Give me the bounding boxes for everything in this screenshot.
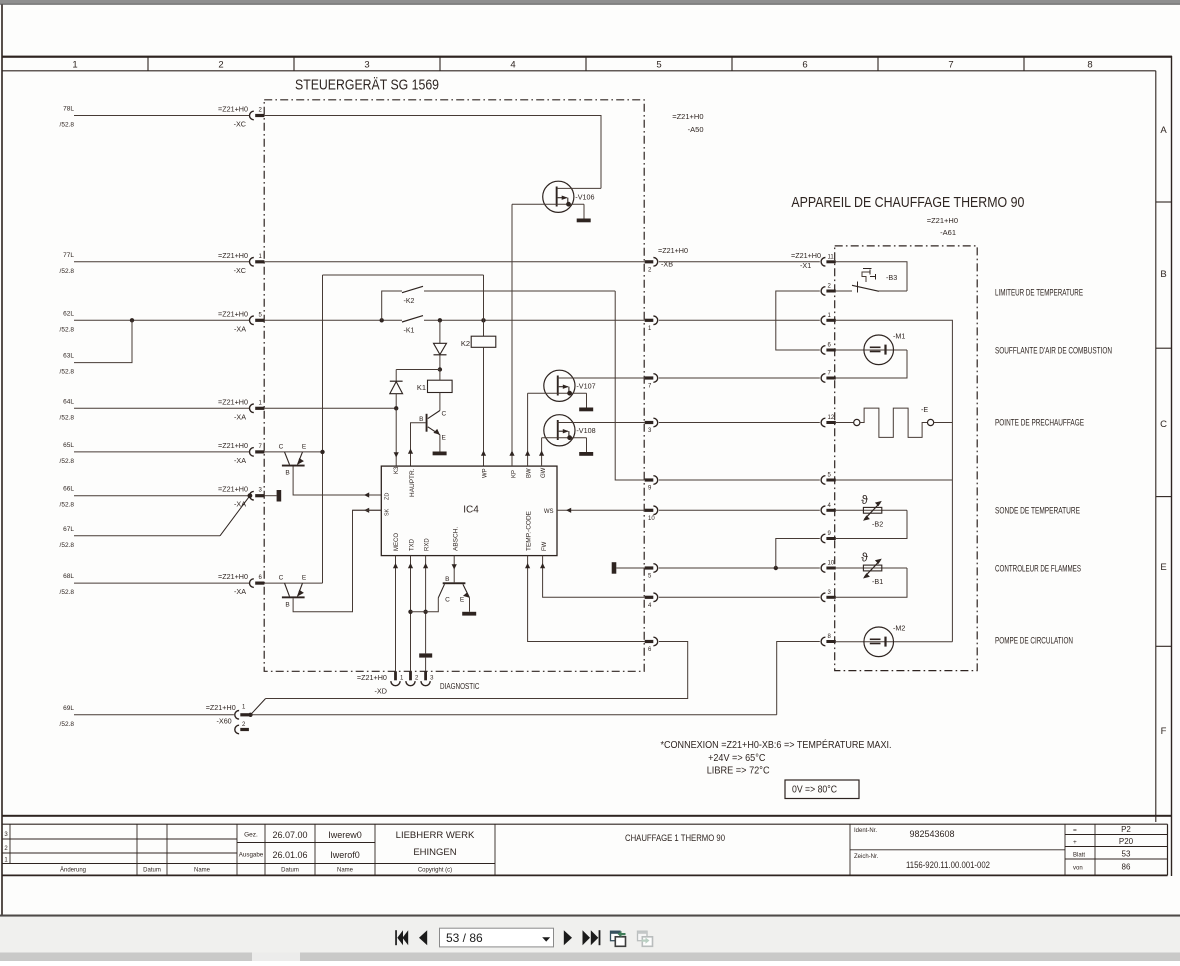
wire B1 down to X1:3 row — [836, 568, 907, 597]
svg-text:10: 10 — [648, 516, 655, 522]
svg-text:K1: K1 — [417, 383, 426, 392]
svg-text:2: 2 — [218, 60, 223, 71]
svg-text:B: B — [419, 416, 423, 423]
junction 62L/diode branch — [438, 318, 442, 322]
connector -XB pin 1 — [645, 319, 654, 322]
ground V6 — [462, 612, 476, 616]
wire 62L inside A50 with K1 contact gap — [264, 319, 402, 321]
svg-text:C: C — [279, 575, 284, 582]
svg-text:E: E — [302, 444, 307, 451]
wire V4 base to IC ZD — [293, 467, 381, 496]
svg-text:-A61: -A61 — [940, 228, 956, 237]
IC4 box — [381, 466, 557, 555]
connector -X1 pin 4 — [821, 506, 825, 515]
svg-text:APPAREIL DE CHAUFFAGE THERMO 9: APPAREIL DE CHAUFFAGE THERMO 90 — [791, 194, 1024, 211]
svg-text:66L: 66L — [63, 486, 74, 493]
wire to contact -K2 — [382, 291, 402, 320]
svg-text:B: B — [285, 602, 289, 609]
svg-text:MECO: MECO — [394, 533, 400, 551]
svg-text:C: C — [1160, 419, 1167, 430]
connector -XB pin 3 — [645, 421, 654, 424]
svg-text:4: 4 — [510, 60, 515, 71]
column ticks — [147, 57, 149, 71]
svg-text:3: 3 — [364, 60, 369, 71]
svg-text:Ident-Nr.: Ident-Nr. — [854, 828, 877, 834]
svg-text:Zeich-Nr.: Zeich-Nr. — [854, 854, 879, 860]
wire 78L inside A50 to V106 drain — [264, 116, 601, 189]
svg-text:TXD: TXD — [410, 538, 416, 551]
svg-text:FW: FW — [542, 541, 548, 551]
connector -X1 pin 2 — [821, 287, 825, 296]
bottom scrollbar strip — [0, 953, 1180, 962]
connector -X1 pin 10 — [821, 564, 825, 573]
frame right outer border — [1171, 56, 1173, 876]
svg-text:/52.8: /52.8 — [60, 589, 75, 596]
svg-text:-XB: -XB — [661, 260, 673, 269]
svg-text:SOUFFLANTE D'AIR DE COMBUSTION: SOUFFLANTE D'AIR DE COMBUSTION — [995, 346, 1112, 357]
connector -XA pin 3 — [250, 491, 254, 500]
svg-text:=Z21+H0: =Z21+H0 — [206, 703, 236, 712]
svg-text:SONDE DE TEMPERATURE: SONDE DE TEMPERATURE — [995, 506, 1080, 517]
wire pump feed up to X1:8 — [777, 642, 820, 715]
svg-text:53 / 86: 53 / 86 — [446, 931, 483, 945]
pump M2 — [836, 641, 953, 643]
svg-text:53: 53 — [1122, 850, 1131, 859]
title block outline — [2, 823, 1168, 825]
relay coil K1 — [428, 380, 453, 392]
wire X1:1 to supply rail — [836, 320, 953, 642]
connector -X1 pin 3 — [821, 593, 825, 602]
diode V2 (up) — [395, 370, 397, 382]
wire XB7 to X1:7 — [659, 377, 820, 379]
svg-text:LIMITEUR DE TEMPERATURE: LIMITEUR DE TEMPERATURE — [995, 288, 1083, 299]
svg-text:Datum: Datum — [143, 868, 161, 874]
frame top border — [2, 56, 1172, 58]
svg-text:=Z21+H0: =Z21+H0 — [218, 397, 248, 406]
svg-text:Gez.: Gez. — [244, 832, 258, 839]
junction 62L/63L — [130, 318, 134, 322]
wire V5 base to IC SK — [293, 510, 381, 612]
svg-text:Name: Name — [194, 868, 211, 874]
connector -X60 pin 2 terminated — [235, 725, 239, 734]
wire base to IC HAUPTR — [411, 423, 426, 466]
svg-text:WP: WP — [483, 468, 489, 478]
svg-text:E: E — [302, 575, 307, 582]
svg-text:/52.8: /52.8 — [60, 502, 75, 509]
transistor V3 (K1 driver) — [439, 393, 441, 411]
svg-text:77L: 77L — [63, 252, 74, 259]
wire IC WS to XB10 — [557, 509, 645, 511]
wire 77L to heater — [659, 261, 820, 263]
svg-text:/52.8: /52.8 — [60, 721, 75, 728]
terminator bar RXD — [419, 653, 432, 657]
svg-text:K2: K2 — [461, 339, 470, 348]
viewer top gray bar — [0, 0, 1180, 5]
wire B2 down to X1:9 row — [836, 510, 907, 538]
svg-text:62L: 62L — [63, 310, 74, 317]
svg-text:/52.8: /52.8 — [60, 458, 75, 465]
svg-text:K3: K3 — [394, 466, 400, 474]
svg-text:=Z21+H0: =Z21+H0 — [218, 441, 248, 450]
connector -XB pin 4 — [645, 596, 654, 599]
svg-text:1: 1 — [72, 60, 77, 71]
svg-text:-B2: -B2 — [872, 520, 883, 529]
MOSFET V106 — [543, 181, 574, 212]
svg-text:HAUPTR.: HAUPTR. — [409, 468, 416, 497]
svg-text:E: E — [442, 435, 447, 442]
svg-text:12: 12 — [828, 415, 835, 421]
svg-text:Iwerof0: Iwerof0 — [330, 850, 360, 860]
svg-text:-XA: -XA — [234, 456, 246, 465]
svg-text:=: = — [1073, 827, 1077, 834]
svg-text:TEMP.-CODE: TEMP.-CODE — [526, 510, 533, 551]
svg-text:SK: SK — [385, 508, 391, 516]
svg-text:63L: 63L — [63, 353, 74, 360]
wire XB3 to X1:12 — [659, 422, 820, 424]
connector -XA pin 1 — [250, 404, 254, 413]
wire V106 drain — [557, 187, 601, 189]
svg-text:=Z21+H0: =Z21+H0 — [218, 572, 248, 581]
connector -XB pin 9 wire — [645, 478, 654, 481]
svg-text:=Z21+H0: =Z21+H0 — [658, 246, 688, 255]
svg-text:LIEBHERR WERK: LIEBHERR WERK — [396, 830, 475, 841]
wire 67L diagonal to 66L connector — [220, 496, 250, 536]
wire 62L to diode V1 — [439, 320, 441, 343]
svg-text:1156-920.11.00.001-002: 1156-920.11.00.001-002 — [906, 860, 990, 870]
svg-text:-A50: -A50 — [688, 125, 704, 134]
junction 66L connector — [248, 493, 253, 498]
junction X60 — [248, 713, 252, 717]
title block middle row line — [237, 842, 375, 844]
svg-text:BW: BW — [527, 468, 533, 478]
wire X60 to IC TEMP.-CODE row — [266, 642, 688, 699]
wire XB9 to X1:5 — [659, 479, 820, 481]
junction 62L/K2 coil branch — [481, 318, 485, 322]
svg-text:26.01.06: 26.01.06 — [272, 850, 307, 860]
connector -X1 pin 11 — [821, 258, 825, 267]
svg-text:E: E — [1160, 562, 1166, 573]
wire to IC K3 — [395, 408, 397, 466]
svg-text:RXD: RXD — [425, 538, 431, 551]
wire IC TXD to XD2 — [410, 556, 412, 672]
connector -XB pin 10 — [645, 509, 654, 512]
svg-text:-XA: -XA — [234, 412, 246, 421]
svg-text:-XA: -XA — [234, 500, 246, 509]
svg-text:68L: 68L — [63, 573, 74, 580]
rail x=322.5 down to 68L — [322, 275, 324, 583]
control unit A50 dashed box — [264, 100, 644, 672]
terminator after 66L connector — [277, 490, 282, 502]
wire V6 emitter to ground — [469, 598, 471, 612]
toolbar next page button — [564, 930, 572, 945]
frame right inner line — [1155, 71, 1157, 822]
svg-text:/52.8: /52.8 — [60, 369, 75, 376]
wire IC RXD down — [425, 556, 427, 654]
connector -XB pin 2 — [645, 260, 654, 263]
svg-text:=Z21+H0: =Z21+H0 — [357, 673, 387, 682]
junction 62L/K2 branch — [380, 318, 384, 322]
contact -K1 — [402, 316, 423, 322]
svg-text:78L: 78L — [63, 106, 74, 113]
junction RXD — [423, 610, 427, 614]
svg-text:C: C — [442, 411, 447, 418]
svg-text:-XD: -XD — [375, 687, 387, 696]
svg-text:/52.8: /52.8 — [60, 542, 75, 549]
svg-text:POMPE DE CIRCULATION: POMPE DE CIRCULATION — [995, 636, 1073, 647]
svg-text:DIAGNOSTIC: DIAGNOSTIC — [440, 682, 480, 691]
svg-text:-B3: -B3 — [886, 273, 897, 282]
frame header bottom line — [2, 70, 1156, 72]
svg-text:=Z21+H0: =Z21+H0 — [927, 216, 958, 225]
toolbar prev page button — [419, 930, 427, 945]
svg-text:ϑ: ϑ — [861, 551, 868, 565]
svg-text:EHINGEN: EHINGEN — [413, 847, 456, 858]
svg-text:CONTROLEUR DE FLAMMES: CONTROLEUR DE FLAMMES — [995, 564, 1081, 575]
connector -XC pin 2 — [250, 111, 254, 120]
title block verticals — [9, 824, 11, 863]
svg-text:ϑ: ϑ — [861, 493, 868, 507]
svg-text:ZD: ZD — [385, 493, 391, 500]
svg-text:+: + — [1073, 839, 1077, 846]
svg-text:-V108: -V108 — [576, 426, 595, 435]
connector -XB pin 5 — [645, 566, 654, 569]
svg-text:-B1: -B1 — [872, 577, 883, 586]
diode V1 (down) — [434, 343, 447, 354]
svg-text:B: B — [1160, 269, 1166, 280]
connector -XA pin 5 — [250, 316, 254, 325]
svg-text:-X1: -X1 — [800, 261, 811, 270]
row divider lines — [1156, 201, 1172, 203]
svg-text:C: C — [445, 597, 450, 604]
wire B3 out link X1:2 to X1:6 — [776, 291, 820, 350]
wire V108 drain to XB3 — [557, 422, 645, 424]
junction link pin9/pin10 — [774, 566, 778, 570]
svg-text:von: von — [1073, 866, 1083, 872]
svg-text:STEUERGERÄT SG 1569: STEUERGERÄT SG 1569 — [295, 77, 439, 94]
wire top loop — [323, 274, 484, 276]
svg-text:ABSCH.: ABSCH. — [453, 527, 460, 551]
toolbar last page button — [583, 930, 591, 945]
svg-text:+24V => 65°C: +24V => 65°C — [708, 752, 766, 764]
note box 0V — [785, 780, 859, 799]
wire X1:11 to limiter B3 — [836, 262, 907, 291]
connector -XB pin 7 — [645, 376, 654, 379]
connector -X1 pin 8 — [821, 637, 825, 646]
svg-text:-V106: -V106 — [575, 192, 594, 201]
svg-text:/52.8: /52.8 — [60, 414, 75, 421]
wire V106 gate from IC KP — [511, 204, 513, 466]
svg-text:69L: 69L — [63, 705, 74, 712]
svg-text:/52.8: /52.8 — [60, 268, 75, 275]
svg-text:POINTE DE PRECHAUFFAGE: POINTE DE PRECHAUFFAGE — [995, 418, 1084, 429]
junction 64L/diode V2 — [394, 406, 398, 410]
terminator + wire XB5 row — [612, 562, 617, 574]
svg-text:=Z21+H0: =Z21+H0 — [218, 105, 248, 114]
connector -X1 pin 6 — [821, 346, 825, 355]
svg-text:IC4: IC4 — [463, 505, 479, 516]
title block page table — [1065, 834, 1168, 836]
page left edge line — [1, 5, 3, 917]
svg-text:B: B — [445, 576, 449, 583]
svg-text:-E: -E — [921, 405, 928, 414]
connector -XC pin 1 — [250, 258, 254, 267]
contact -K2 — [402, 286, 423, 292]
motor M1 — [836, 349, 907, 351]
svg-text:Änderung: Änderung — [60, 867, 86, 874]
connector -X1 pin 12 — [821, 418, 825, 427]
svg-text:A: A — [1160, 125, 1167, 136]
heater A61 dashed box — [835, 246, 978, 671]
svg-text:Name: Name — [337, 868, 354, 874]
wire K1 top — [439, 370, 441, 381]
svg-text:Ausgabe: Ausgabe — [239, 852, 264, 859]
wire link TXD-RXD to V6 collector — [411, 598, 439, 612]
wire XB1 row to X1:1 — [659, 319, 820, 321]
wire X1:9 link down to pin10 row — [776, 539, 820, 569]
wire down to pin 9 row — [615, 291, 645, 480]
connector -X1 pin 5 — [821, 476, 825, 485]
svg-text:B: B — [285, 470, 289, 477]
ground V3 — [433, 452, 447, 456]
svg-text:5: 5 — [656, 60, 661, 71]
relay coil K2 — [471, 336, 496, 347]
wire IC TEMP.-CODE down — [528, 556, 645, 642]
svg-text:67L: 67L — [63, 526, 74, 533]
svg-text:F: F — [1161, 726, 1167, 737]
svg-text:-XA: -XA — [234, 587, 246, 596]
svg-text:Blatt: Blatt — [1073, 853, 1085, 859]
toolbar previous view icon — [611, 931, 621, 941]
wire WS row — [353, 509, 382, 511]
svg-text:-M1: -M1 — [893, 332, 905, 341]
svg-text:/52.8: /52.8 — [60, 122, 75, 129]
wire V107 drain to XB7 — [557, 377, 645, 379]
toolbar next view icon disabled — [638, 931, 648, 941]
svg-text:=Z21+H0: =Z21+H0 — [218, 485, 248, 494]
wire IC FW down — [543, 556, 645, 598]
svg-text:P20: P20 — [1119, 837, 1134, 846]
wire M1 right down to X1:7 row — [836, 350, 907, 378]
svg-text:64L: 64L — [63, 398, 74, 405]
svg-text:8: 8 — [1087, 60, 1092, 71]
svg-text:11: 11 — [828, 254, 835, 260]
svg-text:Copyright (c): Copyright (c) — [418, 868, 452, 874]
link wire to diode V2 — [396, 369, 440, 371]
svg-text:0V => 80°C: 0V => 80°C — [792, 785, 837, 796]
svg-text:65L: 65L — [63, 442, 74, 449]
svg-text:=Z21+H0: =Z21+H0 — [218, 251, 248, 260]
svg-text:-XC: -XC — [234, 120, 246, 129]
wire XB10 to X1:4 — [659, 509, 820, 511]
svg-text:CHAUFFAGE 1 THERMO 90: CHAUFFAGE 1 THERMO 90 — [625, 833, 725, 844]
wire XB5 to X1:10 — [659, 567, 820, 569]
junction TXD — [408, 610, 412, 614]
connector -XA pin 6 — [249, 579, 253, 588]
connector -XB pin 6 — [645, 640, 654, 643]
wire 68L inside — [264, 582, 322, 584]
svg-text:Iwerew0: Iwerew0 — [328, 830, 362, 840]
svg-text:P2: P2 — [1121, 825, 1131, 834]
svg-text:WS: WS — [544, 509, 554, 515]
wire K2 coil to IC WP — [483, 347, 485, 466]
svg-text:7: 7 — [948, 60, 953, 71]
limiter switch -B3 — [836, 290, 852, 292]
svg-text:-V107: -V107 — [576, 381, 595, 390]
svg-text:=Z21+H0: =Z21+H0 — [791, 251, 821, 260]
svg-text:26.07.00: 26.07.00 — [272, 830, 307, 840]
svg-text:-XC: -XC — [234, 266, 246, 275]
glow element -E — [836, 422, 854, 424]
MOSFET V108 — [544, 415, 575, 446]
wire V107 gate from IC BW — [527, 393, 529, 466]
svg-text:6: 6 — [802, 60, 807, 71]
transistor V6 (ABSCH) — [453, 556, 455, 583]
wire 64L inside — [264, 407, 396, 409]
svg-text:=Z21+H0: =Z21+H0 — [218, 309, 248, 318]
connector -X1 pin 9 — [821, 534, 825, 543]
frame bottom border — [2, 815, 1172, 817]
svg-text:C: C — [279, 444, 284, 451]
svg-text:=Z21+H0: =Z21+H0 — [672, 112, 703, 121]
flame sensor -B1 — [836, 567, 907, 569]
wire 69L to pump link — [251, 714, 777, 716]
svg-text:KP: KP — [512, 470, 518, 478]
svg-text:Datum: Datum — [281, 868, 299, 874]
wire IC MECO to XD1 — [395, 556, 397, 672]
svg-text:-M2: -M2 — [893, 624, 905, 633]
svg-text:LIBRE => 72°C: LIBRE => 72°C — [707, 765, 770, 777]
page bottom edge line — [0, 915, 1180, 917]
svg-text:-X60: -X60 — [217, 717, 232, 726]
svg-text:E: E — [460, 597, 465, 604]
wire XB4 to X1:3 — [659, 596, 820, 598]
svg-text:/52.8: /52.8 — [60, 326, 75, 333]
viewer toolbar background — [0, 917, 1180, 961]
junction 65L/rail — [320, 450, 324, 454]
wire K2 coil branch — [483, 275, 485, 336]
wire emitter to ground — [439, 435, 441, 452]
toolbar first page button — [395, 930, 397, 945]
svg-text:GW: GW — [541, 467, 547, 478]
wire X60 diagonal up — [251, 699, 266, 715]
svg-text:-XA: -XA — [234, 324, 246, 333]
title block row lines left — [2, 838, 237, 840]
svg-text:*CONNEXION =Z21+H0-XB:6 => TEM: *CONNEXION =Z21+H0-XB:6 => TEMPÉRATURE M… — [661, 738, 892, 751]
toolbar page combo box — [440, 928, 554, 947]
wire V108 gate from IC GW — [541, 438, 543, 466]
svg-text:-K1: -K1 — [404, 328, 415, 335]
connector -X1 pin 7 — [821, 374, 825, 383]
svg-text:-K2: -K2 — [404, 298, 415, 305]
connector -XA pin 7 — [250, 448, 254, 457]
wire X1:5 to rail — [836, 479, 953, 481]
wire 77L across A50 — [264, 261, 644, 263]
wire 65L inside — [264, 451, 322, 453]
svg-text:982543608: 982543608 — [909, 829, 954, 839]
temperature sensor -B2 — [836, 509, 907, 511]
svg-text:10: 10 — [828, 561, 835, 567]
MOSFET V107 — [544, 370, 575, 401]
svg-text:86: 86 — [1122, 863, 1131, 872]
junction diode/K1 — [438, 367, 442, 371]
connector -X1 pin 1 — [821, 316, 825, 325]
